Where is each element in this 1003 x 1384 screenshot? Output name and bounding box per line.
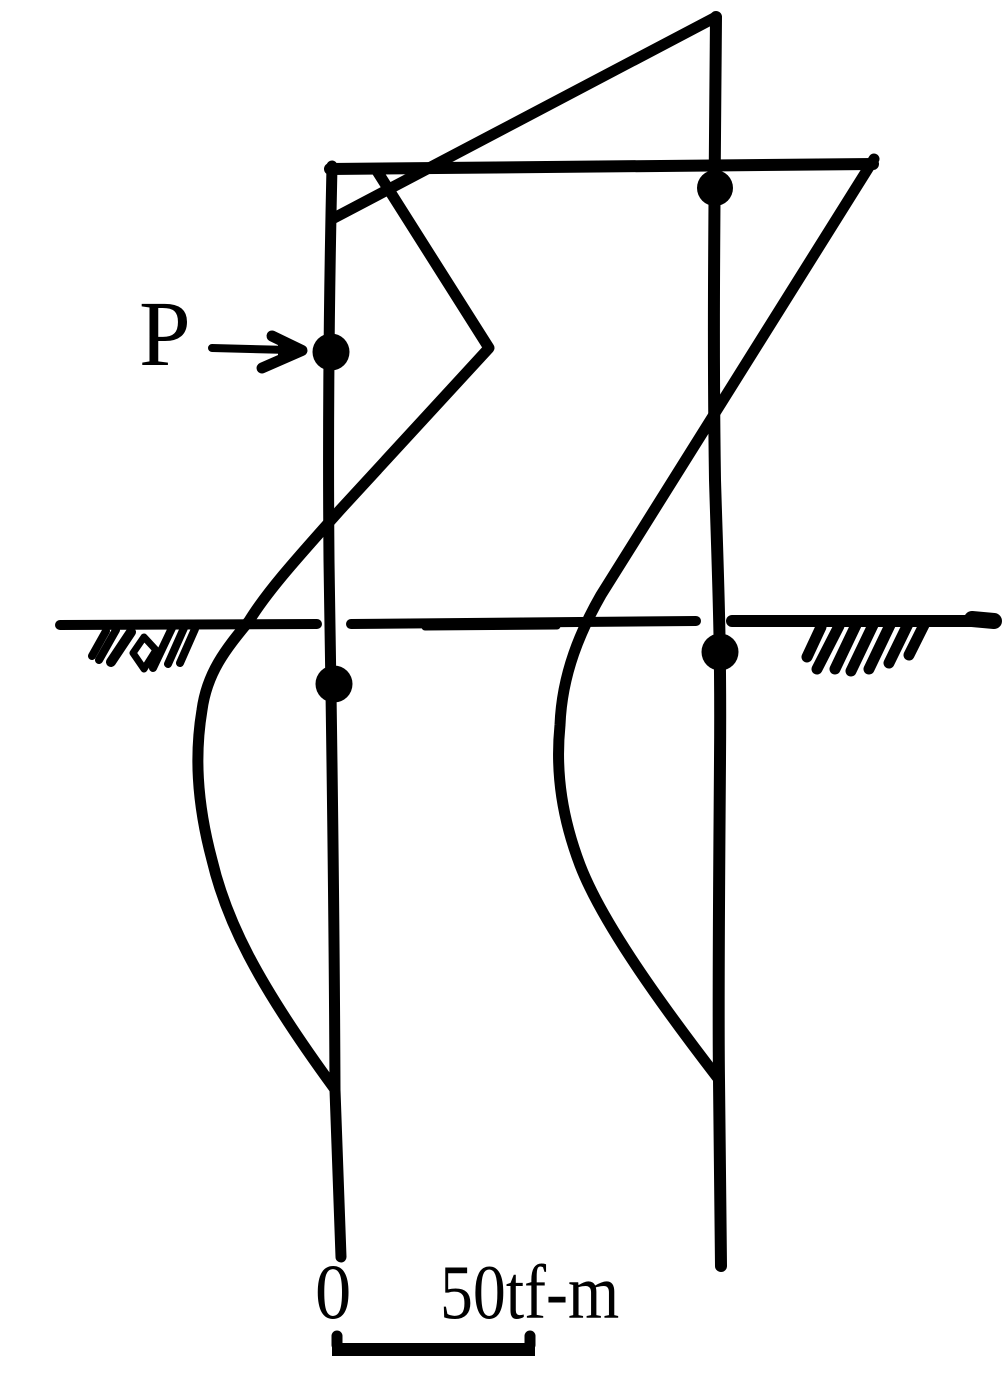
cap beam xyxy=(330,164,873,169)
ground hatching left xyxy=(92,628,195,669)
right pile xyxy=(714,17,721,1266)
scale bar bracket xyxy=(332,1343,535,1356)
ground line middle segment xyxy=(351,621,696,624)
node dot at right pile head xyxy=(697,170,733,206)
scale bar right tick xyxy=(525,1336,536,1345)
ground line left segment xyxy=(60,624,317,625)
node dot at load P on left pile xyxy=(313,334,350,371)
label 50tf-m xyxy=(440,1254,619,1331)
node dot on right pile below ground xyxy=(702,634,739,671)
load P arrow shaft xyxy=(212,348,290,350)
ground line right segment xyxy=(732,615,988,627)
left pile xyxy=(329,166,341,1257)
left pile moment diagram xyxy=(198,171,489,1088)
ground line overdraw stroke xyxy=(425,626,557,627)
label P xyxy=(139,288,191,381)
node dot on left pile below ground xyxy=(316,666,353,703)
beam moment diagram line xyxy=(334,17,716,218)
ground hatching right xyxy=(807,621,926,671)
label 0 xyxy=(315,1253,351,1331)
right pile moment diagram xyxy=(559,159,874,1077)
load P arrow head xyxy=(262,336,302,368)
scale bar left tick xyxy=(332,1336,343,1345)
ground line right end blob xyxy=(972,619,994,621)
